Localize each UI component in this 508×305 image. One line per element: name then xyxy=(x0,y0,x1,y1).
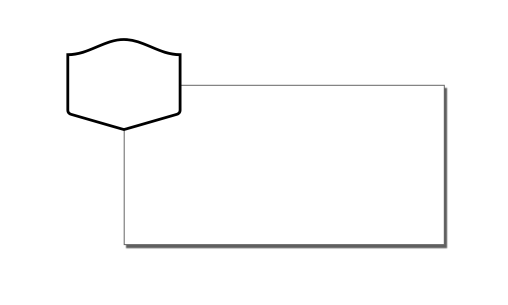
shadow of process rectangle xyxy=(127,88,447,247)
process rectangle xyxy=(124,85,444,244)
shield shape xyxy=(68,40,180,130)
